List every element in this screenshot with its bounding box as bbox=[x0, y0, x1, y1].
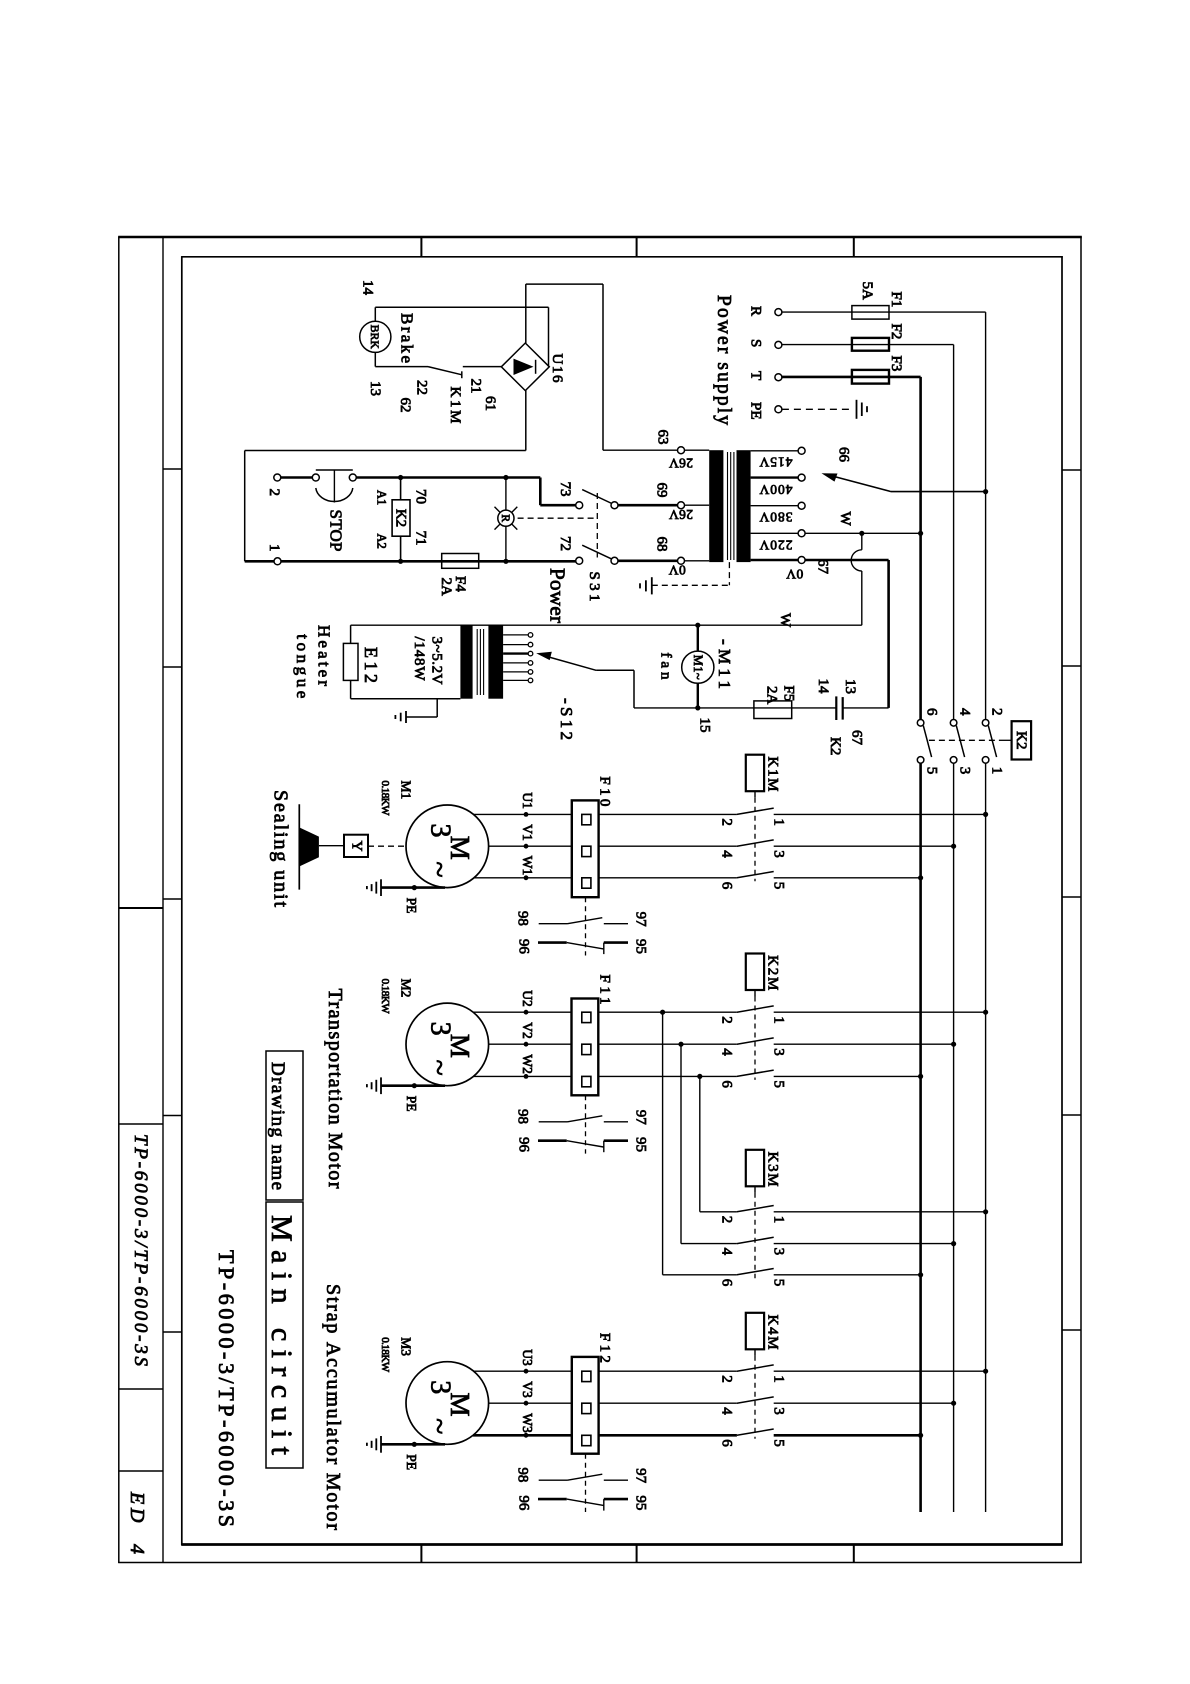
svg-text:M1: M1 bbox=[399, 781, 414, 800]
contactor K2 pole 4-3 bbox=[950, 720, 957, 727]
K3M linkage dashed bbox=[754, 1186, 756, 1193]
wire control top thick bbox=[281, 476, 313, 479]
wire U16 minus loop bbox=[525, 391, 527, 451]
svg-text:K1M: K1M bbox=[765, 757, 781, 792]
svg-text:Drawing name: Drawing name bbox=[267, 1062, 288, 1190]
svg-text:3: 3 bbox=[771, 1248, 787, 1256]
svg-text:5: 5 bbox=[771, 1080, 787, 1088]
terminal PE bbox=[775, 406, 782, 413]
wire R to F1 bbox=[782, 311, 986, 313]
svg-text:2: 2 bbox=[719, 1216, 735, 1224]
wire 14 top bbox=[375, 306, 548, 308]
svg-text:TP-6000-3/TP-6000-3S: TP-6000-3/TP-6000-3S bbox=[214, 1250, 239, 1527]
svg-text:5: 5 bbox=[924, 767, 940, 775]
svg-text:95: 95 bbox=[633, 939, 649, 954]
wire U16 right vertex to 14 bbox=[548, 307, 550, 366]
svg-text:21: 21 bbox=[468, 379, 484, 394]
node K3M pole 1 bus bbox=[983, 1209, 988, 1214]
svg-text:K2: K2 bbox=[1013, 731, 1029, 749]
F11 aux contact 95-96 bbox=[538, 1139, 567, 1142]
svg-text:F5: F5 bbox=[781, 686, 797, 702]
svg-text:M2: M2 bbox=[399, 979, 414, 998]
lamp linkage dashed bbox=[518, 517, 598, 519]
margin zone divider left bbox=[163, 1331, 182, 1333]
svg-text:22: 22 bbox=[414, 380, 430, 395]
node K3M pole 5 bus bbox=[918, 1272, 923, 1277]
svg-text:Strap Accumulator Motor: Strap Accumulator Motor bbox=[322, 1284, 344, 1530]
K2M pole 4-3 wire bbox=[599, 1043, 737, 1045]
node K1M pole 3 bus bbox=[951, 844, 956, 849]
svg-text:4: 4 bbox=[719, 850, 735, 858]
svg-text:98: 98 bbox=[515, 911, 531, 926]
wire M2 U2 bbox=[473, 1011, 572, 1013]
F10 aux contact 95-96 bbox=[538, 941, 567, 944]
node K1M pole 1 bus bbox=[983, 812, 988, 817]
wire M2 PE bbox=[381, 1084, 445, 1087]
svg-text:2: 2 bbox=[989, 708, 1005, 716]
svg-text:0V: 0V bbox=[786, 567, 803, 582]
contactor coil K3M bbox=[746, 1150, 764, 1187]
svg-text:W3: W3 bbox=[520, 1413, 535, 1433]
margin zone divider left bbox=[163, 666, 182, 668]
tap 63 26V secondary bbox=[685, 449, 710, 451]
drawing-name box bbox=[266, 1051, 303, 1200]
svg-text:K3M: K3M bbox=[765, 1152, 781, 1187]
svg-text:U16: U16 bbox=[549, 354, 565, 384]
F12 aux contact 95-96 bbox=[538, 1498, 567, 1501]
svg-text:Heater: Heater bbox=[315, 625, 334, 686]
svg-text:2: 2 bbox=[719, 1375, 735, 1383]
svg-text:62: 62 bbox=[397, 398, 413, 413]
label K2 boxed bbox=[1012, 721, 1032, 759]
relay coil K2 bbox=[398, 475, 403, 480]
wire heater bottom bbox=[350, 680, 352, 698]
svg-text:A2: A2 bbox=[375, 534, 389, 549]
svg-text:F1: F1 bbox=[888, 292, 904, 308]
contactor coil K2M bbox=[746, 954, 764, 991]
overload relay F11 bbox=[572, 999, 599, 1096]
wire U16 top vertex to tap 63 bbox=[525, 284, 527, 343]
lamp R bbox=[503, 475, 508, 480]
svg-text:69: 69 bbox=[654, 483, 670, 498]
svg-text:~: ~ bbox=[423, 1418, 456, 1434]
svg-text:97: 97 bbox=[633, 1468, 649, 1484]
svg-text:U1: U1 bbox=[520, 792, 535, 809]
svg-text:fan: fan bbox=[658, 653, 674, 681]
svg-text:98: 98 bbox=[515, 1109, 531, 1124]
svg-text:~: ~ bbox=[423, 861, 456, 877]
node fan top bbox=[695, 623, 700, 628]
terminal 1 bbox=[274, 558, 281, 565]
svg-text:96: 96 bbox=[516, 1137, 532, 1153]
F12 linkage dashed bbox=[585, 1454, 587, 1512]
svg-text:F2: F2 bbox=[888, 324, 904, 340]
svg-text:Power supply: Power supply bbox=[713, 295, 734, 425]
ground heater bbox=[436, 699, 438, 717]
K1M pole 4-3 wire bbox=[599, 845, 737, 847]
wire control bottom thick bbox=[245, 560, 576, 563]
dashed Y to M1 bbox=[368, 845, 406, 847]
svg-text:71: 71 bbox=[413, 531, 429, 546]
margin zone divider right bbox=[1062, 896, 1081, 898]
svg-text:-M11: -M11 bbox=[715, 639, 734, 689]
K4M pole 6-5 wire bbox=[599, 1434, 737, 1437]
margin zone divider left bbox=[163, 1115, 182, 1117]
title strip divider bbox=[119, 907, 163, 909]
wire jaw to Y bbox=[319, 845, 344, 847]
svg-text:V3: V3 bbox=[520, 1381, 535, 1398]
svg-text:5: 5 bbox=[771, 1279, 787, 1287]
svg-text:Main circuit: Main circuit bbox=[265, 1215, 298, 1456]
wire 0V down to K2 contact 13 bbox=[887, 560, 890, 708]
svg-text:E12: E12 bbox=[361, 647, 381, 683]
svg-text:U3: U3 bbox=[520, 1349, 535, 1366]
svg-text:4: 4 bbox=[719, 1407, 735, 1415]
F12 aux contact 97-98 bbox=[539, 1479, 568, 1481]
svg-text:67: 67 bbox=[849, 730, 865, 746]
margin zone divider left bbox=[163, 898, 182, 900]
svg-text:PE: PE bbox=[404, 1454, 419, 1470]
svg-text:F11: F11 bbox=[596, 975, 612, 1005]
svg-text:K1M: K1M bbox=[447, 387, 463, 424]
fan M11 bbox=[697, 625, 699, 651]
svg-text:BRK: BRK bbox=[368, 325, 380, 350]
svg-text:73: 73 bbox=[557, 482, 573, 497]
margin zone divider right bbox=[1062, 1114, 1081, 1116]
K2M linkage dashed bbox=[754, 990, 756, 997]
svg-text:95: 95 bbox=[633, 1137, 649, 1152]
svg-text:0V: 0V bbox=[669, 563, 686, 578]
S31 linkage dashed bbox=[596, 493, 598, 558]
margin zone divider top bbox=[853, 237, 855, 257]
svg-text:3: 3 bbox=[771, 1048, 787, 1056]
svg-text:S: S bbox=[748, 339, 764, 347]
svg-text:4: 4 bbox=[719, 1248, 735, 1256]
svg-text:4: 4 bbox=[719, 1048, 735, 1056]
svg-text:220V: 220V bbox=[759, 537, 792, 552]
wire M1 W1 bbox=[474, 877, 572, 879]
wire M1 V1 bbox=[489, 845, 572, 847]
svg-text:0.18KW: 0.18KW bbox=[379, 1337, 391, 1373]
margin zone divider right bbox=[1062, 1329, 1081, 1331]
wire 0V primary thick bbox=[805, 559, 889, 562]
svg-text:2: 2 bbox=[266, 489, 282, 497]
wire PE dashed bbox=[782, 408, 853, 410]
wire branch U2 to K3M pole5 bbox=[662, 1012, 664, 1275]
svg-text:M: M bbox=[445, 836, 475, 860]
wire STOP to K2 node bbox=[356, 476, 540, 479]
S12 taps bbox=[503, 634, 528, 636]
transformer primary winding bar bbox=[737, 450, 751, 562]
border inner frame bbox=[181, 256, 1063, 258]
svg-text:PE: PE bbox=[748, 402, 764, 420]
svg-text:0.18KW: 0.18KW bbox=[379, 781, 391, 817]
K3M pole 4-3 wire bbox=[681, 1243, 737, 1245]
wire M3 W3 bbox=[473, 1434, 572, 1437]
node R bus 66 bbox=[983, 489, 988, 494]
margin zone divider top bbox=[420, 237, 422, 257]
svg-text:68: 68 bbox=[654, 537, 670, 552]
svg-text:6: 6 bbox=[719, 1279, 735, 1287]
svg-text:26V: 26V bbox=[669, 456, 693, 471]
svg-text:Y: Y bbox=[348, 841, 364, 852]
svg-text:Power: Power bbox=[546, 568, 570, 623]
svg-text:F12: F12 bbox=[597, 1333, 613, 1363]
wire M1 U1 bbox=[474, 813, 572, 815]
wire M3 PE bbox=[381, 1443, 445, 1446]
contactor K2 pole 6-5 bbox=[917, 720, 924, 727]
wire branch V2 to K3M pole3 bbox=[680, 1044, 682, 1243]
svg-text:2A: 2A bbox=[438, 578, 454, 597]
F11 aux contact 97-98 bbox=[539, 1121, 568, 1123]
margin zone divider top bbox=[636, 237, 638, 257]
svg-text:PE: PE bbox=[404, 898, 419, 914]
fuse F1 bbox=[852, 306, 889, 320]
motor M3 bbox=[406, 1362, 489, 1445]
main-circuit box bbox=[266, 1202, 303, 1468]
svg-text:M: M bbox=[445, 1034, 475, 1058]
wire M3 V3 bbox=[489, 1402, 572, 1404]
title strip divider bbox=[119, 1123, 163, 1125]
ground M2 PE bbox=[380, 1077, 382, 1094]
margin zone divider bottom bbox=[636, 1545, 638, 1563]
svg-text:66: 66 bbox=[836, 447, 852, 463]
svg-text:97: 97 bbox=[633, 912, 649, 928]
wire top long 625 bbox=[351, 624, 862, 626]
fuse F4 bbox=[442, 554, 479, 569]
terminal S bbox=[775, 341, 782, 348]
svg-text:TP-6000-3/TP-6000-3S: TP-6000-3/TP-6000-3S bbox=[130, 1134, 151, 1367]
svg-text:14: 14 bbox=[360, 280, 376, 296]
transformer core lines bbox=[727, 452, 729, 560]
svg-text:/148W: /148W bbox=[411, 637, 427, 682]
wire M2 W2 bbox=[473, 1075, 571, 1077]
transformer shield ground dashed bbox=[728, 562, 730, 585]
node 220V branch bbox=[859, 531, 864, 536]
svg-text:13: 13 bbox=[842, 679, 858, 694]
wire 220V branch down with hop bbox=[861, 533, 863, 550]
svg-text:Transportation Motor: Transportation Motor bbox=[324, 989, 346, 1189]
rectifier U16 bbox=[501, 343, 549, 391]
wire M3 U3 bbox=[474, 1370, 572, 1372]
K1M linkage dashed bbox=[754, 791, 756, 798]
fuse F5 bbox=[754, 701, 792, 719]
svg-text:2A: 2A bbox=[764, 686, 780, 705]
wire corner to 73 bbox=[539, 478, 542, 506]
margin zone divider bottom bbox=[853, 1545, 855, 1563]
svg-text:1: 1 bbox=[989, 767, 1005, 775]
node K2M pole 5 bus bbox=[918, 1074, 923, 1079]
wire M1 PE bbox=[381, 886, 445, 889]
svg-text:400V: 400V bbox=[759, 482, 792, 497]
svg-text:K2: K2 bbox=[827, 737, 843, 755]
tap 68 0V secondary bbox=[685, 560, 710, 562]
wire S12 to F5 bbox=[634, 707, 836, 709]
svg-text:M1~: M1~ bbox=[691, 655, 705, 680]
node K3M pole 3 bus bbox=[951, 1241, 956, 1246]
heater E12 bbox=[343, 643, 358, 680]
wire branch W2 to K3M pole1 bbox=[699, 1076, 701, 1211]
wire T to F3 bbox=[782, 376, 921, 379]
K2M pole 6-5 wire bbox=[599, 1075, 737, 1077]
terminal R bbox=[775, 309, 782, 316]
svg-text:2: 2 bbox=[719, 1016, 735, 1024]
coupling Y bbox=[344, 835, 368, 857]
svg-text:V2: V2 bbox=[520, 1022, 535, 1038]
svg-text:M: M bbox=[445, 1392, 475, 1416]
margin zone divider right bbox=[1062, 469, 1081, 471]
svg-text:1: 1 bbox=[771, 1375, 787, 1383]
K1M pole 6-5 wire bbox=[599, 877, 737, 879]
overload relay F10 bbox=[572, 800, 599, 897]
svg-text:67: 67 bbox=[815, 559, 831, 575]
svg-text:W2: W2 bbox=[520, 1054, 535, 1074]
svg-text:4: 4 bbox=[957, 708, 973, 716]
K4M linkage dashed bbox=[754, 1349, 756, 1356]
svg-text:2: 2 bbox=[719, 818, 735, 826]
ground transformer shield bbox=[651, 577, 653, 594]
tap 415V bbox=[751, 450, 799, 452]
title strip divider bbox=[119, 1388, 163, 1390]
terminal T bbox=[775, 374, 782, 381]
contactor coil K4M bbox=[746, 1313, 764, 1350]
svg-text:1: 1 bbox=[266, 544, 282, 552]
svg-text:Sealing unit: Sealing unit bbox=[270, 790, 292, 907]
svg-text:-S12: -S12 bbox=[557, 698, 576, 740]
svg-text:R: R bbox=[499, 514, 511, 522]
svg-text:5: 5 bbox=[771, 882, 787, 890]
svg-text:U2: U2 bbox=[520, 990, 535, 1007]
contactor coil K1M bbox=[746, 755, 764, 792]
svg-text:T: T bbox=[748, 371, 764, 380]
svg-text:13: 13 bbox=[367, 381, 383, 396]
svg-text:70: 70 bbox=[413, 489, 429, 504]
svg-text:A1: A1 bbox=[375, 490, 389, 505]
svg-text:5: 5 bbox=[771, 1439, 787, 1447]
svg-text:F3: F3 bbox=[888, 356, 904, 372]
svg-text:6: 6 bbox=[719, 882, 735, 890]
F10 linkage dashed bbox=[585, 897, 587, 955]
svg-text:W: W bbox=[777, 613, 793, 628]
svg-text:415V: 415V bbox=[759, 454, 792, 469]
tap 380V bbox=[751, 505, 799, 507]
wire S to F2 bbox=[782, 344, 954, 346]
selector S12 arrow bbox=[543, 655, 596, 670]
switch S31 pole 73-69 bbox=[618, 504, 678, 507]
contact K1M 21-22 bbox=[428, 367, 462, 375]
svg-text:F10: F10 bbox=[597, 776, 613, 806]
F11 linkage dashed bbox=[585, 1095, 587, 1153]
K4M pole 4-3 wire bbox=[599, 1402, 737, 1404]
svg-text:1: 1 bbox=[771, 1016, 787, 1024]
node K2M V2 branch bbox=[678, 1042, 683, 1047]
tap 0V primary bbox=[751, 559, 799, 561]
wire 63 to U16 bbox=[603, 449, 678, 451]
svg-text:STOP: STOP bbox=[327, 510, 346, 552]
terminal 2 bbox=[274, 474, 281, 481]
svg-text:3: 3 bbox=[771, 850, 787, 858]
contact K2 13-14 plates bbox=[835, 696, 837, 720]
svg-text:S31: S31 bbox=[586, 572, 602, 602]
motor M1 bbox=[406, 805, 489, 888]
svg-text:1: 1 bbox=[771, 1216, 787, 1224]
svg-text:PE: PE bbox=[404, 1096, 419, 1112]
node K4M pole 5 bus bbox=[918, 1433, 923, 1438]
node K2M pole 1 bus bbox=[983, 1010, 988, 1015]
svg-text:380V: 380V bbox=[759, 510, 792, 525]
svg-text:14: 14 bbox=[815, 679, 831, 695]
svg-text:W1: W1 bbox=[520, 856, 535, 876]
bus T vertical bbox=[919, 377, 922, 720]
svg-text:3~5.2V: 3~5.2V bbox=[429, 637, 445, 685]
svg-text:5A: 5A bbox=[859, 282, 875, 301]
border outer frame bbox=[118, 236, 1082, 238]
wire heater top bbox=[350, 625, 352, 643]
svg-text:3: 3 bbox=[957, 767, 973, 775]
overload relay F12 bbox=[572, 1357, 599, 1454]
contactor K2 pole 2-1 bbox=[982, 720, 989, 727]
svg-text:R: R bbox=[748, 306, 764, 316]
wire M2 V2 bbox=[489, 1043, 572, 1045]
margin zone divider left bbox=[163, 468, 182, 470]
svg-text:95: 95 bbox=[633, 1495, 649, 1510]
brake BRK bbox=[360, 321, 391, 352]
svg-text:97: 97 bbox=[633, 1110, 649, 1126]
K4M pole 2-1 wire bbox=[599, 1370, 737, 1372]
switch S31 pole 72-68 bbox=[618, 559, 678, 562]
svg-text:96: 96 bbox=[516, 1495, 532, 1511]
wire 13 to contact bbox=[375, 366, 428, 368]
svg-text:M3: M3 bbox=[399, 1337, 414, 1356]
svg-text:K4M: K4M bbox=[765, 1315, 781, 1350]
K1M pole 2-1 wire bbox=[599, 813, 737, 815]
sealing unit jaw bbox=[298, 804, 300, 889]
transformer S12 primary bar bbox=[488, 625, 503, 699]
svg-text:K2: K2 bbox=[392, 509, 408, 527]
ground M1 PE bbox=[380, 879, 382, 896]
tap 400V bbox=[751, 476, 799, 478]
svg-text:K2M: K2M bbox=[765, 955, 781, 990]
wire 220V to T bus bbox=[805, 532, 921, 534]
node T bus 220V bbox=[918, 531, 923, 536]
svg-text:96: 96 bbox=[516, 939, 532, 955]
node K2M pole 3 bus bbox=[951, 1042, 956, 1047]
node K1M pole 5 bus bbox=[918, 875, 923, 880]
svg-text:61: 61 bbox=[482, 396, 498, 411]
K3M pole 6-5 wire bbox=[663, 1274, 737, 1276]
bus S vertical bbox=[953, 345, 955, 720]
svg-text:3: 3 bbox=[771, 1407, 787, 1415]
push-button STOP bbox=[312, 474, 319, 481]
title strip line bbox=[162, 237, 164, 1564]
tap 220V bbox=[751, 532, 799, 534]
transformer S12 core bbox=[476, 629, 478, 695]
K3M pole 2-1 wire bbox=[700, 1211, 737, 1213]
svg-text:6: 6 bbox=[924, 708, 940, 716]
fuse F2 bbox=[852, 338, 889, 351]
svg-text:6: 6 bbox=[719, 1080, 735, 1088]
node K4M pole 3 bus bbox=[951, 1401, 956, 1406]
margin zone divider right bbox=[1062, 665, 1081, 667]
K2 contact linkage dashed bbox=[929, 739, 1000, 741]
svg-text:~: ~ bbox=[423, 1059, 456, 1075]
svg-text:ED 4: ED 4 bbox=[126, 1491, 148, 1554]
svg-text:98: 98 bbox=[515, 1467, 531, 1482]
selector 66 arrow bbox=[891, 491, 986, 493]
node K2M U2 branch bbox=[660, 1010, 665, 1015]
svg-text:W: W bbox=[837, 512, 853, 527]
svg-text:tongue: tongue bbox=[293, 634, 312, 698]
